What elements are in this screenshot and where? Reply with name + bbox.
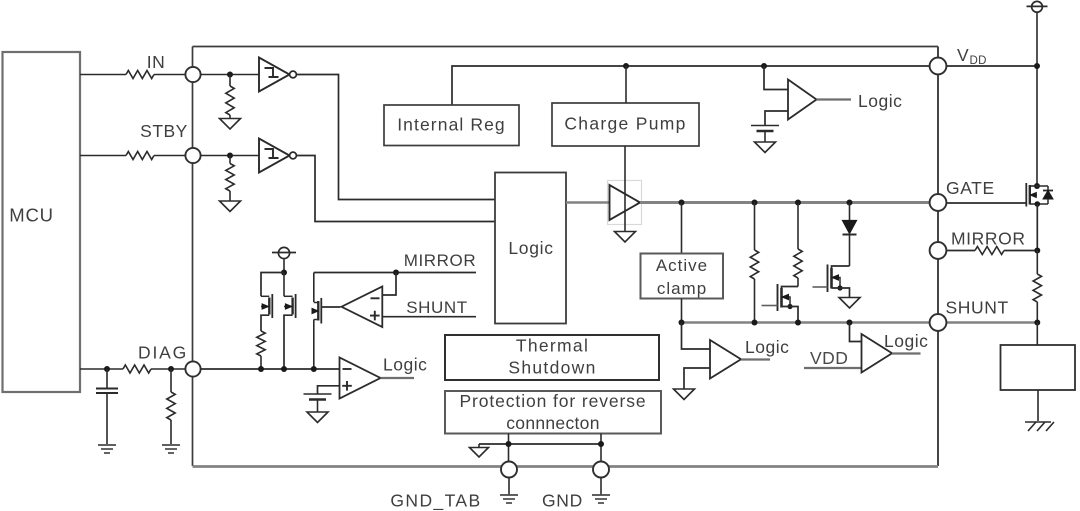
svg-text:MIRROR: MIRROR — [404, 251, 477, 270]
svg-text:MIRROR: MIRROR — [951, 229, 1026, 249]
svg-text:GATE: GATE — [946, 178, 995, 198]
svg-text:DIAG: DIAG — [138, 343, 188, 363]
svg-text:MCU: MCU — [9, 205, 54, 226]
svg-text:Protection for reverse: Protection for reverse — [459, 391, 646, 411]
svg-text:Logic: Logic — [383, 355, 427, 375]
svg-text:V: V — [957, 45, 969, 65]
svg-text:Shutdown: Shutdown — [508, 358, 596, 378]
svg-text:clamp: clamp — [657, 279, 707, 298]
svg-text:GND_TAB: GND_TAB — [390, 491, 481, 511]
svg-text:VDD: VDD — [810, 348, 848, 368]
svg-text:STBY: STBY — [140, 121, 188, 141]
svg-text:connnecton: connnecton — [506, 413, 600, 433]
svg-text:Logic: Logic — [745, 337, 789, 357]
svg-text:Active: Active — [656, 256, 708, 275]
svg-text:IN: IN — [147, 52, 166, 72]
svg-text:Logic: Logic — [884, 331, 928, 351]
svg-text:SHUNT: SHUNT — [946, 298, 1009, 318]
svg-text:Logic: Logic — [508, 238, 553, 258]
svg-text:Internal Reg: Internal Reg — [397, 115, 506, 135]
svg-text:Logic: Logic — [858, 91, 902, 111]
svg-text:GND: GND — [542, 491, 583, 511]
svg-text:Charge Pump: Charge Pump — [564, 114, 686, 134]
svg-text:DD: DD — [970, 55, 987, 67]
svg-text:SHUNT: SHUNT — [406, 298, 468, 317]
svg-text:Thermal: Thermal — [516, 336, 589, 356]
